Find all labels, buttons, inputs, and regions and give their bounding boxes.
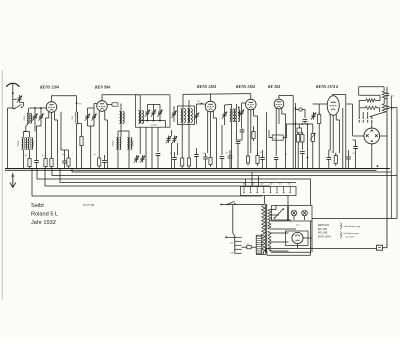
wire can drops: [139, 127, 141, 154]
resistor R14: [297, 128, 302, 133]
svg-text:1A: 1A: [247, 242, 250, 245]
capacitor C24: [236, 141, 241, 143]
capacitor C19: [194, 154, 199, 156]
wire main bus lower: [5, 169, 377, 171]
svg-text:REN 904: REN 904: [95, 86, 110, 90]
wire right top frame: [359, 86, 384, 88]
wire bottom rail 2: [271, 221, 311, 252]
transformer T3: [230, 109, 232, 122]
capacitor C10 trimmer: [158, 111, 162, 113]
wire V2 cathode legs: [98, 111, 100, 156]
svg-text:Roland 5 L: Roland 5 L: [31, 212, 58, 218]
voltage selector bar: [241, 187, 297, 196]
wire V4 grid: [242, 102, 246, 104]
capacitor C13: [156, 153, 161, 155]
wire C4 C5: [87, 108, 89, 113]
wire AF double rail: [292, 95, 294, 168]
wire af right: [307, 124, 309, 155]
wire det coupling: [266, 112, 268, 169]
svg-text:110: 110: [230, 253, 233, 255]
capacitor C35 pins: [387, 93, 390, 95]
wire coupling down: [20, 103, 24, 107]
wire stage1 caps: [37, 125, 42, 127]
capacitor C12 trimmer: [141, 157, 145, 159]
wire V3 cathode legs: [207, 112, 209, 154]
wire rail7: [32, 169, 262, 197]
coil L1: [27, 113, 28, 123]
resistor R18: [334, 156, 337, 164]
resistor R12: [256, 156, 259, 164]
transformer TR1 heater winding 1: [268, 210, 271, 221]
wire V5 anode: [279, 95, 293, 99]
wire T3 leads: [230, 104, 232, 109]
capacitor C20: [203, 156, 208, 158]
svg-text:0,1: 0,1: [331, 152, 334, 154]
lamp LP2: [302, 210, 308, 216]
svg-text:220: 220: [230, 243, 233, 245]
svg-text:Seibt: Seibt: [31, 203, 44, 209]
wire selector drops: [245, 179, 247, 187]
svg-text:27/75 We: 27/75 We: [83, 203, 95, 207]
capacitor C22 trimmer: [240, 111, 244, 113]
shield can K1: [136, 95, 171, 127]
resistor R9: [209, 158, 212, 165]
capacitor C34: [346, 156, 351, 158]
coil L6: [187, 109, 189, 123]
tube V3: [205, 101, 216, 112]
wire bottom rail 1: [266, 248, 377, 250]
svg-text:2x500: 2x500: [151, 125, 157, 127]
wire T2 tops: [117, 131, 119, 138]
wire V4 cathode legs: [247, 110, 249, 152]
wire V1 grid: [45, 107, 47, 109]
rectifier tube GL2 box: [286, 231, 309, 246]
resistor R7: [181, 158, 184, 166]
capacitor C33: [327, 157, 332, 159]
node anode V1 / choke: [76, 96, 78, 112]
resistor R3: [50, 159, 53, 167]
wire left rail: [7, 108, 9, 169]
pins heater: [358, 117, 360, 119]
lamp LP1: [291, 210, 297, 216]
capacitor C11 trimmer: [135, 157, 139, 159]
wire mid stage3: [151, 127, 153, 168]
resistor R20: [366, 106, 377, 109]
wire top line hf: [183, 93, 251, 96]
wire fuse link: [383, 247, 388, 249]
capacitor C3: [34, 160, 39, 162]
resistor R16: [301, 135, 304, 143]
svg-text:RE 304: RE 304: [268, 85, 280, 89]
capacitor C27: [260, 157, 265, 159]
wire pot: [312, 124, 314, 131]
capacitor C6: [62, 160, 67, 162]
switch S1 mains: [228, 201, 235, 204]
coil L5: [181, 109, 183, 123]
wire output right rails: [345, 95, 347, 169]
svg-text:Jahr 1932: Jahr 1932: [31, 220, 56, 226]
fuse F2: [377, 245, 383, 250]
coil L4 grid V2: [120, 112, 122, 124]
capacitor C28: [274, 157, 279, 159]
wire T1 bottoms: [23, 150, 25, 169]
svg-text:RENS 1204: RENS 1204: [236, 85, 255, 89]
antenna: [6, 83, 19, 87]
resistor R10: [252, 132, 255, 139]
switch box PSU: [272, 206, 288, 222]
wire V5 pins: [275, 108, 277, 156]
wire mains tap stub: [226, 236, 235, 238]
svg-text:ohne Entzerrung: ohne Entzerrung: [344, 225, 361, 228]
svg-text:20000: 20000: [132, 140, 135, 147]
tube V6 output: [327, 96, 339, 116]
wire lamp box down: [293, 216, 295, 220]
resistor R21: [382, 91, 386, 99]
wire heater bend: [370, 113, 385, 117]
potentiometer P1: [311, 134, 314, 142]
tap selector block: [256, 235, 262, 254]
svg-text:nur halb: nur halb: [346, 236, 355, 239]
resistor R17: [318, 115, 321, 124]
coil L3: [139, 111, 141, 124]
wire L4: [120, 106, 122, 111]
wire V1 cathode legs: [48, 112, 50, 118]
wire rectifier leads: [380, 135, 387, 137]
node psu: [377, 165, 379, 167]
transformer TR1 HT winding: [268, 231, 271, 251]
capacitor C17 trimmer: [173, 138, 177, 140]
resistor R15: [297, 135, 300, 143]
wire detector row: [287, 123, 314, 125]
wire L1 bottom: [24, 123, 29, 131]
wire grid V2: [94, 103, 97, 105]
capacitor C18: [172, 157, 177, 159]
transformer TR1 core: [264, 204, 266, 253]
resistor R19: [366, 99, 375, 102]
rectifier tube GL2: [292, 232, 303, 243]
rectifier tube GL1: [364, 128, 380, 144]
svg-text:RENS 1204: RENS 1204: [40, 86, 59, 90]
svg-text:0,1: 0,1: [42, 155, 45, 157]
capacitor C21 trimmer: [223, 113, 227, 115]
wire L2 bottom: [76, 124, 78, 169]
node T3: [238, 107, 240, 109]
wire can internals: [147, 105, 149, 110]
tube V2: [97, 101, 108, 112]
resistor R11: [246, 156, 249, 163]
capacitor C7: [102, 160, 107, 162]
mains taps comb: [234, 236, 236, 254]
wire TR1 top: [264, 203, 265, 205]
wire rail3: [52, 169, 397, 176]
wire main bus: [5, 168, 390, 170]
wire V6 anode top: [333, 95, 346, 96]
svg-text:0,1: 0,1: [94, 154, 97, 156]
resistor R4: [80, 137, 83, 146]
wire V3 anode: [210, 94, 212, 101]
wire antenna to coupling: [13, 97, 17, 99]
tube V4: [246, 99, 257, 110]
capacitor C9 trimmer: [152, 111, 156, 113]
wire rail2: [72, 169, 391, 173]
capacitor C15 trimmer: [195, 114, 199, 116]
capacitor C5 trimmer: [92, 115, 96, 117]
wire V2 anode top: [102, 95, 139, 101]
wire V4 anode: [250, 94, 252, 100]
capacitor C26: [228, 155, 233, 157]
wire stage4 mid: [171, 130, 173, 136]
resistor R22: [382, 104, 386, 113]
wire heater taps: [270, 209, 277, 211]
capacitor C14 trimmer: [172, 112, 176, 114]
svg-text:20000: 20000: [32, 140, 35, 147]
wire selector vertical: [232, 205, 234, 234]
resistor R1: [28, 159, 31, 167]
transformer T2: [116, 138, 117, 150]
wire right main vertical: [386, 87, 388, 248]
wire rect top: [371, 123, 373, 129]
svg-text:20000: 20000: [17, 140, 20, 147]
wire HT taps: [270, 232, 289, 234]
ground arrow: [12, 173, 14, 187]
resistor R13: [272, 135, 283, 140]
capacitor C2 trimmer: [39, 115, 43, 117]
wire T1 top leads: [23, 132, 25, 138]
wire rail4: [37, 169, 311, 206]
node grid V3: [201, 103, 203, 105]
svg-text:RENS 1374 d: RENS 1374 d: [316, 85, 338, 89]
wire stage5 drops: [221, 125, 223, 155]
capacitor C25: [220, 156, 225, 158]
wire K2 leads: [182, 94, 184, 108]
tube V5: [274, 99, 284, 109]
wire speaker feed: [346, 103, 352, 105]
wire right top link: [389, 108, 397, 115]
wire grid V6: [313, 103, 327, 105]
tube V1: [46, 102, 57, 113]
capacitor C-ant trimmer: [18, 97, 22, 99]
label box V2 grid: [112, 103, 118, 106]
wire heater loop bottom: [267, 254, 311, 256]
svg-text:RGN 2004: RGN 2004: [317, 234, 331, 238]
wire right link: [312, 218, 397, 220]
brace 1: [340, 223, 343, 230]
transformer T1: [22, 138, 23, 150]
svg-text:1: 1: [72, 154, 73, 156]
capacitor C1 trimmer: [33, 115, 37, 117]
capacitor C23: [240, 129, 245, 131]
svg-text:1000: 1000: [23, 115, 26, 121]
capacitor C36: [353, 146, 358, 148]
capacitor C16 trimmer: [167, 138, 171, 140]
svg-text:mit Entzerrung: mit Entzerrung: [344, 232, 360, 235]
resistor R6: [98, 158, 101, 166]
fuse F1: [247, 246, 251, 249]
resistor R8: [187, 158, 190, 166]
coil L2: [77, 112, 78, 123]
wire V1 anode top: [52, 96, 77, 102]
wire comb stub: [233, 233, 235, 236]
wire T2 bottoms: [117, 150, 119, 169]
capacitor C8 trimmer: [146, 111, 150, 113]
lamp box: [289, 206, 313, 222]
wire stage2 bias: [60, 112, 62, 150]
capacitor C31: [300, 151, 305, 153]
brace 2: [340, 232, 343, 239]
wire antenna branch: [13, 99, 15, 108]
svg-text:RENS 1204: RENS 1204: [197, 85, 216, 89]
scan edge left: [1, 70, 3, 300]
resistor R2: [44, 159, 47, 167]
wire mains lead: [221, 204, 233, 206]
wire rail6: [45, 169, 270, 187]
transformer TR1 heater winding 2: [268, 222, 271, 229]
capacitor C4 trimmer: [86, 115, 90, 117]
wire k2 down: [181, 125, 183, 156]
svg-text:4 V: 4 V: [296, 224, 300, 227]
wire rail5: [60, 169, 296, 183]
switch S-wave: [15, 105, 22, 109]
wire V6 pins: [329, 114, 331, 150]
filter box K2: [178, 106, 195, 125]
svg-text:20000: 20000: [112, 140, 115, 147]
transformer TR1 primary: [262, 206, 265, 252]
wire grid bus stage1: [29, 107, 46, 109]
wire C1 C2 tops: [34, 108, 36, 113]
wire switch to transformer: [233, 204, 264, 206]
svg-text:0,1: 0,1: [260, 152, 263, 154]
wire pins feed: [358, 100, 360, 116]
resistor R5: [67, 158, 70, 166]
grid cap C29: [299, 108, 302, 111]
wire TR1 bottom: [262, 252, 264, 255]
capacitor C32 trimmer: [312, 114, 316, 116]
wire GL2 leads: [303, 237, 312, 239]
capacitor C30: [303, 119, 308, 121]
